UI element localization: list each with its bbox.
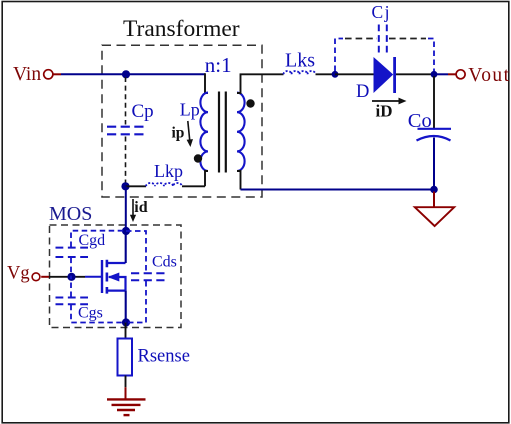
transformer core (218, 92, 220, 173)
wire node D to Co (433, 76, 435, 128)
capacitor Cgs leads (70, 277, 72, 297)
svg-text:Vin: Vin (13, 64, 41, 85)
node E junction (430, 186, 438, 194)
wire Lks to node C (316, 73, 336, 75)
capacitor Cgd leads (71, 231, 126, 247)
svg-text:MOS: MOS (49, 203, 92, 225)
current ip arrow (188, 121, 190, 141)
svg-text:Cj: Cj (372, 2, 392, 22)
wire Vin to node A (61, 73, 126, 75)
node source junction (122, 318, 130, 326)
wire diode to node D (396, 73, 437, 75)
wire secondary bottom lead (237, 171, 241, 190)
wire primary top lead (205, 73, 208, 93)
inductor Lp primary winding (200, 93, 208, 171)
node C junction (332, 71, 339, 78)
capacitor Co top plate (418, 128, 452, 130)
wire Rsense to ground (125, 376, 127, 388)
wire Cp bottom dashed lead (125, 137, 127, 185)
svg-text:Cds: Cds (152, 254, 177, 271)
current id arrow (132, 199, 134, 216)
wire Lkp to primary bottom lead (182, 185, 205, 187)
node G junction (67, 273, 75, 281)
svg-text:id: id (134, 199, 147, 216)
wire primary bottom lead (205, 171, 208, 186)
svg-text:ip: ip (172, 124, 185, 141)
wire gate lead (85, 276, 102, 278)
svg-text:Lkp: Lkp (154, 161, 183, 181)
capacitor Cgs plates (56, 297, 89, 299)
resistor Rsense (118, 339, 133, 376)
inductor Lks (284, 71, 316, 74)
svg-text:iD: iD (376, 102, 393, 121)
svg-text:D: D (356, 82, 369, 102)
svg-text:Cp: Cp (132, 101, 154, 122)
transformer dashed box (102, 45, 262, 197)
capacitor Cp plates (107, 126, 144, 128)
current iD arrow (372, 100, 401, 102)
wire Vin red stub (54, 73, 62, 75)
ground left (107, 398, 146, 400)
node A junction (122, 70, 130, 78)
wire node A to primary top lead (126, 73, 205, 75)
svg-text:Lks: Lks (285, 50, 315, 72)
svg-text:Vg: Vg (7, 264, 30, 284)
wire secondary top lead (237, 74, 284, 93)
capacitor Cds plates (131, 272, 165, 274)
capacitor Co bottom plate (417, 136, 451, 141)
svg-text:Cgd: Cgd (79, 232, 106, 249)
svg-text:Rsense: Rsense (138, 347, 190, 367)
svg-text:n:1: n:1 (205, 53, 232, 77)
wire Co to node E (433, 138, 435, 190)
transformer polarity dot secondary (246, 99, 254, 107)
wire node B to Lkp (126, 185, 147, 187)
capacitor Cj plates (378, 25, 380, 53)
wire source to Rsense (125, 323, 127, 339)
capacitor Cgd plates (56, 247, 89, 249)
wire Vg red stub (41, 276, 49, 278)
node D junction (431, 71, 438, 78)
transformer polarity dot primary (194, 154, 202, 162)
svg-text:Lp: Lp (180, 100, 200, 120)
node drain junction (122, 227, 130, 235)
wire bottom rail secondary (241, 189, 435, 191)
terminal Vout (437, 73, 448, 75)
node B junction (primary bottom) (121, 182, 129, 190)
diode D (374, 57, 394, 93)
inductor Lkp (146, 183, 182, 186)
wire Cp top dashed lead (125, 77, 127, 125)
inductor Ls secondary winding (237, 93, 245, 171)
capacitor Cj dashed left lead (335, 39, 343, 72)
ground right triangle (415, 207, 454, 226)
wire node B to drain (125, 186, 127, 231)
svg-text:Vout: Vout (468, 65, 510, 86)
wire node E to ground stub (433, 192, 435, 208)
svg-text:Cgs: Cgs (78, 305, 103, 322)
capacitor Cj dashed right lead (389, 38, 426, 40)
transistor Q1 MOSFET (101, 260, 103, 293)
wire Vg to gate node (49, 276, 85, 278)
MOS dashed box (50, 225, 182, 328)
capacitor Cds leads (126, 231, 146, 272)
svg-text:Transformer: Transformer (123, 16, 240, 42)
wire node C to diode (335, 73, 374, 75)
